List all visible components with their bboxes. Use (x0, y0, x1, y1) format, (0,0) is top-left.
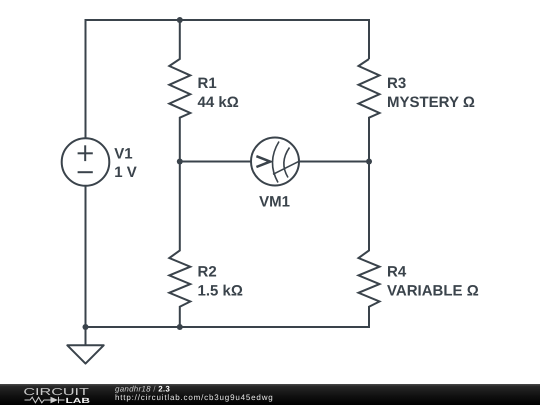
svg-text:R3: R3 (387, 75, 406, 92)
svg-text:44 kΩ: 44 kΩ (198, 94, 239, 111)
svg-text:R1: R1 (198, 75, 217, 92)
svg-text:R4: R4 (387, 264, 407, 281)
svg-text:LAB: LAB (66, 396, 91, 405)
svg-text:VM1: VM1 (259, 194, 290, 211)
svg-text:R2: R2 (198, 264, 217, 281)
svg-text:MYSTERY Ω: MYSTERY Ω (387, 94, 475, 111)
svg-text:V1: V1 (114, 145, 132, 162)
svg-text:http://circuitlab.com/cb3ug9u4: http://circuitlab.com/cb3ug9u45edwg (115, 393, 274, 402)
svg-text:VARIABLE Ω: VARIABLE Ω (387, 283, 479, 300)
svg-text:1.5 kΩ: 1.5 kΩ (198, 283, 243, 300)
svg-text:1 V: 1 V (114, 164, 137, 181)
